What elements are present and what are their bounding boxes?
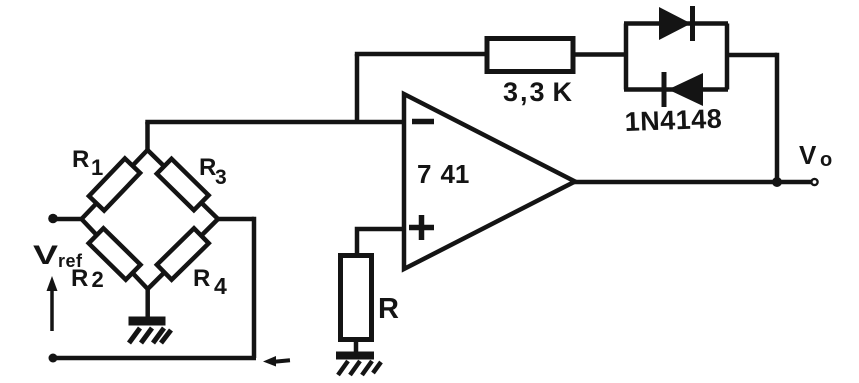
wire: bridge arm bottom-right bbox=[148, 219, 218, 289]
svg-text:3: 3 bbox=[215, 166, 227, 189]
wire: feedback riser from inverting line bbox=[355, 54, 360, 122]
svg-text:V: V bbox=[799, 140, 817, 170]
diode D2 1N4148 (bottom, anode right) bbox=[662, 72, 704, 107]
terminal Vo (open circle) bbox=[811, 179, 817, 185]
node: Vref top terminal bbox=[48, 214, 58, 224]
wire: feedback drop to output node bbox=[775, 53, 780, 182]
node: bottom-left terminal bbox=[49, 354, 58, 363]
svg-text:V: V bbox=[33, 240, 58, 270]
wire: bridge bottom node to ground bbox=[145, 289, 150, 317]
svg-text:1: 1 bbox=[91, 155, 103, 180]
wire: diode-pair frame bottom branch bbox=[624, 87, 728, 92]
ground (bridge) bbox=[129, 317, 166, 326]
ground (below R) bbox=[336, 352, 374, 360]
svg-text:R: R bbox=[193, 265, 210, 292]
svg-text:o: o bbox=[820, 149, 832, 171]
wire: return riser down bbox=[252, 217, 257, 358]
wire: op-amp output to Vo terminal bbox=[570, 180, 811, 185]
resistor R2 (bridge left-bottom arm) bbox=[89, 228, 141, 279]
wire: bridge arm top-right bbox=[148, 150, 219, 219]
wire: bridge left node to Vref terminal bbox=[53, 217, 82, 222]
wire: bridge top node up to inverting-input line bbox=[145, 122, 150, 152]
svg-text:4: 4 bbox=[214, 273, 227, 299]
wire: noninverting input to R bbox=[357, 229, 404, 257]
diode D1 1N4148 (top, anode left) bbox=[659, 6, 695, 41]
resistor 3,3K bbox=[487, 39, 573, 72]
arrow: Vref polarity (points up) bbox=[50, 288, 54, 331]
resistor R4 (bridge bottom-right arm) bbox=[157, 228, 209, 279]
wire: bridge arm left-top bbox=[82, 150, 148, 219]
arrow: return current marker (points left) bbox=[263, 356, 290, 367]
label op-amp inverting pin (-) bbox=[412, 119, 434, 125]
wire: R to ground bbox=[354, 339, 359, 353]
label op-amp noninverting pin (+) bbox=[409, 215, 434, 240]
wire: inverting input line to op-amp bbox=[145, 120, 404, 125]
svg-text:741: 741 bbox=[417, 159, 469, 189]
op-amp U1 741 bbox=[404, 94, 575, 269]
wire: bridge arm left-bottom bbox=[82, 219, 148, 289]
svg-text:R: R bbox=[378, 293, 399, 325]
svg-text:R: R bbox=[199, 154, 216, 181]
wire: bottom return run bbox=[53, 356, 256, 361]
wire: diode-pair frame left branch bbox=[624, 24, 629, 90]
wire: feedback top run to 3,3K resistor bbox=[355, 52, 487, 57]
resistor R1 (bridge left-top arm) bbox=[89, 158, 140, 210]
wire: 3,3K to diode pair bbox=[573, 52, 626, 57]
svg-text:1N4148: 1N4148 bbox=[624, 104, 723, 137]
wire: diode-pair frame right branch bbox=[725, 24, 730, 90]
wire: diode-pair frame top branch bbox=[624, 21, 728, 26]
wire: bridge right node to return riser bbox=[218, 217, 254, 222]
svg-text:R: R bbox=[72, 146, 89, 173]
svg-text:3,3K: 3,3K bbox=[503, 77, 574, 107]
svg-text:2: 2 bbox=[92, 267, 104, 292]
resistor R3 (bridge top-right arm) bbox=[157, 159, 209, 210]
resistor R bbox=[341, 256, 372, 340]
wire: diode pair to output node bbox=[727, 53, 777, 58]
svg-text:ref: ref bbox=[58, 251, 83, 271]
node: output junction bbox=[772, 177, 782, 187]
